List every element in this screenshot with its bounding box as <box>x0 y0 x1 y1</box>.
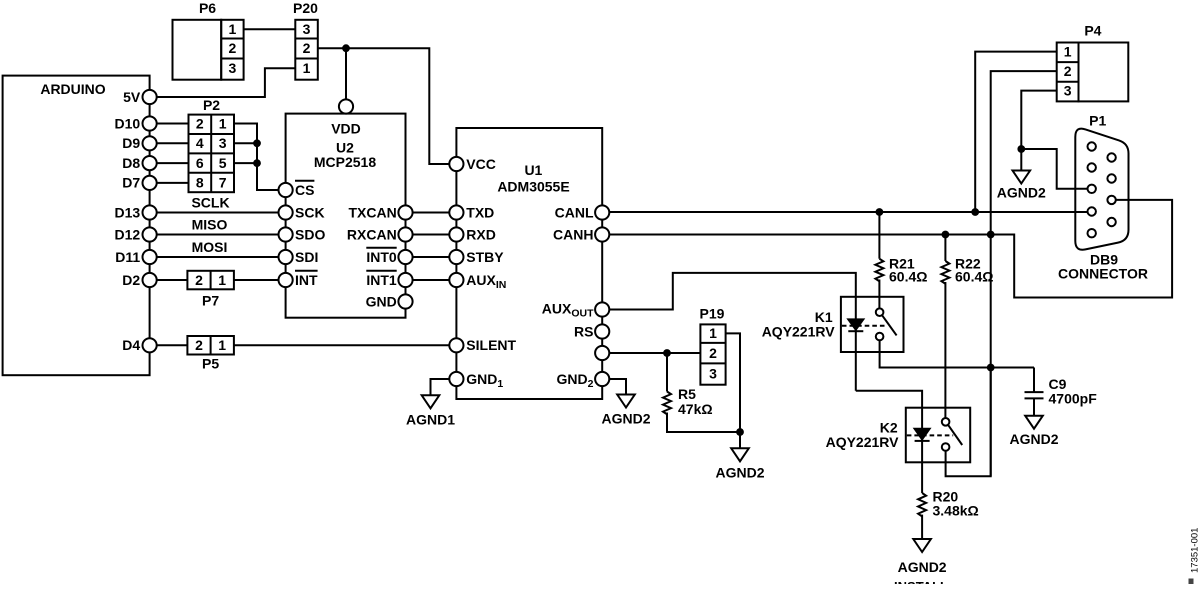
K2 switch <box>942 418 950 426</box>
svg-text:TXCAN: TXCAN <box>348 204 396 220</box>
wire D13 to SCK (SCLK) <box>157 212 279 214</box>
U1 pin GND1 <box>449 372 463 386</box>
Arduino pin D11 <box>143 250 157 264</box>
junction VDD branch <box>342 44 350 52</box>
svg-text:AGND2: AGND2 <box>1009 431 1058 447</box>
svg-text:P6: P6 <box>199 0 216 16</box>
partial mark bottom right <box>1189 579 1194 585</box>
K1 LED wire <box>855 297 857 391</box>
K2 LED wire <box>921 408 923 463</box>
svg-text:SILENT: SILENT <box>466 337 516 353</box>
junction K1 return/vert <box>987 364 995 372</box>
K1 dashed line <box>842 325 888 327</box>
svg-text:1: 1 <box>219 115 227 131</box>
wire D12 to SDO (MISO) <box>157 234 279 236</box>
svg-text:VDD: VDD <box>331 121 361 137</box>
svg-text:U1: U1 <box>524 162 542 178</box>
overline INT1 <box>366 270 396 272</box>
wire R22 bottom <box>944 282 946 418</box>
svg-text:D13: D13 <box>115 204 141 220</box>
svg-text:VCC: VCC <box>466 156 496 172</box>
wire K2 return up <box>946 368 991 476</box>
svg-text:P19: P19 <box>700 306 725 322</box>
wire P4.2 vertical <box>991 71 1057 476</box>
svg-text:D7: D7 <box>122 175 140 191</box>
ground AGND2 (R20) <box>913 539 931 552</box>
wire D9 to P2.4 <box>157 142 189 144</box>
wire K1 return to C9 <box>880 340 1034 367</box>
DB9 pin right 2 <box>1107 174 1115 182</box>
svg-text:SDI: SDI <box>295 249 318 265</box>
svg-text:AGND1: AGND1 <box>406 411 455 427</box>
wire AGND2 stem <box>1020 149 1022 171</box>
svg-text:CANH: CANH <box>553 226 593 242</box>
U2 pin VDD <box>339 99 353 113</box>
junction P4.3/AGND2 <box>1017 145 1025 153</box>
svg-text:1: 1 <box>229 21 237 37</box>
svg-text:AQY221RV: AQY221RV <box>762 323 836 339</box>
wire D7 to P2.8 <box>157 182 189 184</box>
svg-text:SCLK: SCLK <box>191 195 229 211</box>
relay K2 box <box>906 408 970 463</box>
ground AGND2 (P19) <box>731 448 749 461</box>
wire VDD stub <box>345 48 347 99</box>
U1 pin RS <box>595 324 609 338</box>
Arduino pin D2 <box>143 273 157 287</box>
K1 switch <box>876 308 884 316</box>
wire P4.1 to CANL <box>975 52 1056 212</box>
U1 pin AUXOUT <box>595 302 609 316</box>
svg-text:1: 1 <box>1064 43 1072 59</box>
U1 pin AUXIN <box>449 273 463 287</box>
IC U1 ADM3055E box <box>456 128 602 399</box>
connector P5 <box>187 336 234 355</box>
DB9 pin left 5 <box>1088 229 1096 237</box>
wire to AGND2 <box>739 432 741 448</box>
U1 pin GND2 <box>595 372 609 386</box>
svg-text:3: 3 <box>229 60 237 76</box>
K1 LED <box>848 319 863 329</box>
wire P20.2 to U1 VCC (VDD net) <box>318 48 450 164</box>
svg-text:MCP2518: MCP2518 <box>314 154 376 170</box>
svg-text:2: 2 <box>229 40 237 56</box>
junction P19.1/R5 <box>736 428 744 436</box>
svg-text:ARDUINO: ARDUINO <box>40 81 105 97</box>
svg-text:2: 2 <box>195 272 203 288</box>
U1 pin VCC <box>449 157 463 171</box>
junction P2.5 <box>253 159 261 167</box>
svg-text:5: 5 <box>219 155 227 171</box>
Arduino pin D4 <box>143 338 157 352</box>
resistor R22 <box>941 261 949 284</box>
wire to DB9.3 <box>1021 149 1087 189</box>
svg-text:47kΩ: 47kΩ <box>678 401 713 417</box>
wire C9 bottom <box>1033 398 1035 415</box>
wire D2 to P7.2 <box>157 279 188 281</box>
wire GND2 to AGND2 <box>609 379 626 395</box>
ground AGND1 <box>422 395 440 408</box>
svg-text:D10: D10 <box>115 115 141 131</box>
U2 pin GND <box>398 294 412 308</box>
svg-text:7: 7 <box>219 175 227 191</box>
svg-text:8: 8 <box>196 175 204 191</box>
svg-text:4700pF: 4700pF <box>1049 391 1098 407</box>
Arduino pin D10 <box>143 116 157 130</box>
U2 pin INT0 <box>398 250 412 264</box>
svg-text:AQY221RV: AQY221RV <box>826 434 900 450</box>
DB9 connector P1 outline <box>1075 129 1128 250</box>
svg-text:K1: K1 <box>815 309 833 325</box>
overline INT <box>295 270 318 272</box>
Arduino pin D13 <box>143 205 157 219</box>
junction P2.3 <box>253 139 261 147</box>
svg-text:3: 3 <box>1064 82 1072 98</box>
ground AGND2 (C9) <box>1025 416 1043 429</box>
svg-text:3: 3 <box>709 365 717 381</box>
U2 pin SCK <box>279 205 293 219</box>
svg-text:2: 2 <box>303 40 311 56</box>
svg-text:D8: D8 <box>122 155 140 171</box>
svg-text:AGND2: AGND2 <box>997 185 1046 201</box>
svg-text:RXD: RXD <box>466 226 496 242</box>
overline CS <box>295 180 314 182</box>
svg-text:D12: D12 <box>115 226 141 242</box>
svg-text:1: 1 <box>709 325 717 341</box>
svg-text:AGND2: AGND2 <box>601 411 650 427</box>
wire AUXOUT to K1 LED <box>609 273 856 310</box>
capacitor C9 <box>1025 391 1044 393</box>
wire GND1 to AGND1 <box>431 379 450 395</box>
svg-text:2: 2 <box>709 345 717 361</box>
connector P4 <box>1057 43 1079 102</box>
wire P7.1 to U2 INT <box>234 279 279 281</box>
svg-text:60.4Ω: 60.4Ω <box>889 269 927 285</box>
U1 pin CANH <box>595 227 609 241</box>
svg-text:GND: GND <box>366 293 397 309</box>
svg-text:RS: RS <box>574 323 593 339</box>
svg-text:CONNECTOR: CONNECTOR <box>1058 265 1148 281</box>
svg-text:P4: P4 <box>1084 23 1101 39</box>
junction R5 top <box>663 349 671 357</box>
wire RXCAN to RXD <box>413 234 450 236</box>
wire R21 top <box>878 212 880 259</box>
wire P19.1 down <box>726 333 740 432</box>
K2 LED <box>915 429 930 440</box>
wire INT1 to AUXIN <box>413 279 450 281</box>
wire D4 to P5.2 <box>157 344 188 346</box>
svg-text:6: 6 <box>196 155 204 171</box>
junction CANL/P4.1 <box>971 208 979 216</box>
svg-text:5V: 5V <box>123 89 141 105</box>
svg-text:ADM3055E: ADM3055E <box>497 179 569 195</box>
svg-text:P5: P5 <box>202 356 219 372</box>
svg-text:AGND2: AGND2 <box>898 559 947 575</box>
resistor R20 <box>918 493 926 516</box>
U2 pin RXCAN <box>398 227 412 241</box>
connector P20 <box>295 20 318 80</box>
resistor R5 <box>663 392 671 415</box>
connector P6 <box>173 20 222 80</box>
svg-text:D2: D2 <box>122 272 140 288</box>
U2 pin CS <box>279 183 293 197</box>
svg-text:P20: P20 <box>293 0 318 16</box>
relay K1 box <box>841 297 904 352</box>
wire P4.3 down <box>1021 91 1056 149</box>
wire D10 to P2.2 <box>157 123 189 125</box>
svg-text:1: 1 <box>303 60 311 76</box>
wire CANL to DB9.4 <box>609 211 1087 213</box>
wire D8 to P2.6 <box>157 162 189 164</box>
wire R20 bottom <box>921 515 923 539</box>
wire P5.1 to U1 SILENT <box>234 344 449 346</box>
svg-text:P2: P2 <box>203 97 220 113</box>
svg-text:SCK: SCK <box>295 204 325 220</box>
wire U1 pin5 to P19.2 <box>609 352 700 354</box>
U2 pin TXCAN <box>398 205 412 219</box>
U2 pin INT <box>279 273 293 287</box>
svg-text:CS: CS <box>295 182 314 198</box>
wire CANH loop to DB9 <box>609 200 1172 298</box>
ground AGND2 (U1) <box>617 395 635 408</box>
svg-text:MISO: MISO <box>192 217 228 233</box>
Arduino pin D7 <box>143 176 157 190</box>
U1 pin RXD <box>449 227 463 241</box>
wire P2.1 to U2 CS <box>234 124 279 191</box>
svg-text:SDO: SDO <box>295 226 325 242</box>
Arduino pin D12 <box>143 227 157 241</box>
U2 pin SDO <box>279 227 293 241</box>
svg-text:INT1: INT1 <box>366 272 397 288</box>
U1 pin 5 (unnamed) <box>595 346 609 360</box>
connector P19 <box>700 324 725 384</box>
U1 pin TXD <box>449 205 463 219</box>
DB9 pin left 3 <box>1088 185 1096 193</box>
svg-text:P1: P1 <box>1089 113 1106 129</box>
wire INT0 to STBY <box>413 256 450 258</box>
svg-text:4: 4 <box>196 135 204 151</box>
Arduino board outline <box>3 76 150 376</box>
svg-text:1: 1 <box>218 337 226 353</box>
DB9 pin right 4 <box>1107 218 1115 226</box>
connector P2 <box>189 115 235 193</box>
DB9 pin left 2 <box>1088 163 1096 171</box>
U1 pin CANL <box>595 205 609 219</box>
DB9 pin left 1 <box>1088 142 1096 150</box>
wire K1 LED to K2 LED <box>856 391 922 408</box>
svg-text:3: 3 <box>303 21 311 37</box>
svg-text:RXCAN: RXCAN <box>347 226 397 242</box>
svg-text:P7: P7 <box>202 293 219 309</box>
svg-text:AGND2: AGND2 <box>715 464 764 480</box>
U2 pin SDI <box>279 250 293 264</box>
svg-text:MOSI: MOSI <box>192 239 228 255</box>
svg-text:CANL: CANL <box>555 204 594 220</box>
wire K2 to R20 <box>921 462 923 493</box>
ground AGND2 (P4) <box>1013 171 1031 184</box>
wire R5 top <box>666 353 668 392</box>
svg-text:INSTALL: INSTALL <box>894 579 948 584</box>
IC U2 MCP2518 box <box>286 114 406 318</box>
wire TXCAN to TXD <box>413 212 450 214</box>
svg-text:R5: R5 <box>678 386 696 402</box>
svg-text:D9: D9 <box>122 135 140 151</box>
svg-text:INT0: INT0 <box>366 249 397 265</box>
svg-text:2: 2 <box>1064 63 1072 79</box>
svg-text:2: 2 <box>196 115 204 131</box>
svg-text:1: 1 <box>218 272 226 288</box>
U1 pin STBY <box>449 250 463 264</box>
junction CANH/R22 <box>942 231 950 239</box>
svg-text:3: 3 <box>219 135 227 151</box>
U2 pin INT1 <box>398 273 412 287</box>
wire D11 to SDI (MOSI) <box>157 256 279 258</box>
svg-text:TXD: TXD <box>466 204 494 220</box>
wire P6.1 to P20.3 <box>244 28 296 30</box>
wire P2.5 to junction <box>234 162 257 164</box>
wire C9 top <box>1033 368 1035 393</box>
svg-text:3.48kΩ: 3.48kΩ <box>933 503 979 519</box>
U1 pin SILENT <box>449 338 463 352</box>
svg-text:INT: INT <box>295 272 318 288</box>
K2 dashed line <box>907 434 953 436</box>
resistor R21 <box>875 259 883 282</box>
wire 5V to P20.1 <box>157 68 296 97</box>
svg-text:D11: D11 <box>115 249 140 265</box>
wire P2.3 to junction <box>234 142 257 144</box>
overline INT0 <box>366 247 396 249</box>
svg-text:D4: D4 <box>122 337 140 353</box>
wire R5 bottom <box>667 413 740 433</box>
wire R21 bottom <box>878 280 880 309</box>
Arduino pin D8 <box>143 156 157 170</box>
svg-text:STBY: STBY <box>466 249 504 265</box>
Arduino pin 5V <box>143 90 157 104</box>
svg-text:2: 2 <box>195 337 203 353</box>
junction CANL/R21 <box>876 208 884 216</box>
DB9 pin left 4 <box>1088 207 1096 215</box>
svg-text:17351-001: 17351-001 <box>1190 528 1201 573</box>
junction CANH/P4.2 <box>987 231 995 239</box>
Arduino pin D9 <box>143 136 157 150</box>
DB9 pin right 1 <box>1107 153 1115 161</box>
svg-text:60.4Ω: 60.4Ω <box>955 269 993 285</box>
connector P7 <box>187 271 234 290</box>
DB9 pin right 3 <box>1107 196 1115 204</box>
wire R22 top <box>944 235 946 262</box>
